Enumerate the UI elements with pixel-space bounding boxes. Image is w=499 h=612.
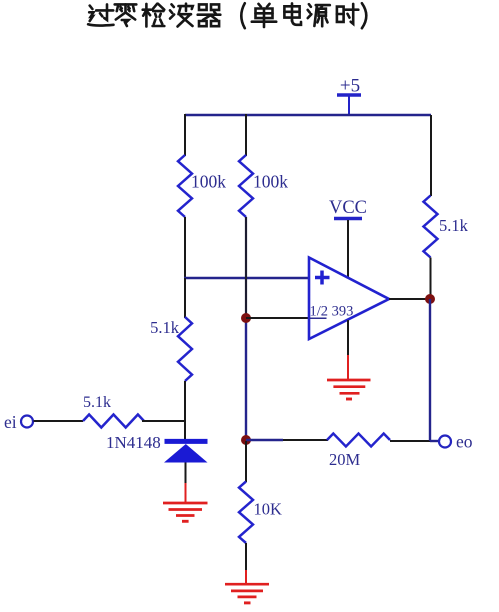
wire top rail [185,114,431,116]
svg-text:ei: ei [4,412,17,432]
port ei circle [21,416,33,428]
diode D1 triangle [164,444,208,463]
junction node output [425,294,435,304]
resistor R3 5.1k [83,415,144,428]
wire noninverting input net [184,277,309,279]
wire left branch mid pin [184,217,186,278]
wire mid branch to 10K [245,441,247,482]
svg-text:5.1k: 5.1k [83,394,111,411]
wire mid branch upper pin [245,114,247,156]
wire mid branch vertical net [245,217,247,318]
wire to 20M [283,439,328,441]
svg-text:100k: 100k [191,172,226,192]
wire R5 to output node [430,258,432,300]
wire op-amp output [389,298,431,300]
junction node inverting [241,313,251,323]
resistor R1 100k [178,155,192,217]
svg-text:10K: 10K [254,500,283,519]
wire right branch upper pin [430,115,432,196]
op-amp plus sign [315,271,330,285]
wire red ground stem mid [245,570,247,584]
wire 20M to eo [390,440,430,442]
wire ei to R3 [34,420,84,422]
junction node feedback [241,435,251,445]
power VCC bar symbol [334,217,362,220]
svg-text:5.1k: 5.1k [439,216,469,235]
wire red ground stem opamp [347,355,349,380]
wire 10K to ground [245,543,247,570]
title 过零检波器（单电源时） [88,3,366,28]
svg-text:1N4148: 1N4148 [106,433,161,452]
wire VCC stem [347,220,349,277]
wire left branch to diode [184,381,186,440]
wire R3 to node [142,420,186,422]
wire output node down [429,299,431,441]
diode D1 cathode bar [165,439,208,444]
wire eo stub [430,440,439,442]
resistor R6 20M [327,434,390,447]
wire red ground stem left [185,483,187,503]
svg-text:VCC: VCC [329,198,367,218]
power +5 bar symbol [337,93,361,97]
svg-text:eo: eo [456,432,473,452]
ground GND1 [163,503,208,521]
wire node to R6 [246,439,283,441]
svg-text:1/2 393: 1/2 393 [310,304,354,320]
label U1 underline [310,317,327,319]
op-amp U1 triangle 1/2 393 [309,258,389,340]
svg-text:100k: 100k [253,172,288,192]
svg-text:20M: 20M [329,450,361,469]
resistor R7 10K [239,482,253,544]
resistor R5 5.1k [424,196,438,258]
resistor R2 5.1k [178,317,192,381]
wire inverting input [246,317,309,319]
resistor R4 100k [239,155,253,217]
ground GND2 [225,584,269,603]
ground GND3 [327,380,371,399]
wire left branch upper pin [184,114,186,156]
wire +5 stem [348,96,350,116]
port eo circle [439,436,451,448]
wire op-amp ground stem [347,320,349,355]
wire diode to ground [185,463,187,484]
wire left branch pin to R2 [184,278,186,318]
svg-text:5.1k: 5.1k [150,318,180,337]
wire mid branch lower net [245,318,247,441]
